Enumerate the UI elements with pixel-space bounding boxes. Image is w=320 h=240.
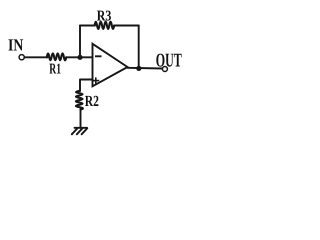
wire feedback top left segment	[80, 25, 95, 27]
wire feedback top right segment	[114, 25, 139, 27]
wire IN terminal to R1	[25, 56, 48, 58]
svg-text:R2: R2	[85, 93, 99, 110]
wire non-inverting input	[80, 80, 93, 91]
svg-text:OUT: OUT	[156, 51, 182, 72]
node B junction dot (output)	[136, 66, 141, 71]
wire R1 to op-amp inverting input	[66, 56, 92, 58]
resistor R2	[76, 91, 83, 110]
ground	[72, 128, 88, 135]
IN terminal	[19, 55, 24, 60]
wire feedback right vertical	[138, 26, 140, 69]
svg-text:R3: R3	[97, 8, 112, 24]
OUT terminal	[162, 67, 167, 72]
wire op-amp output to OUT terminal	[128, 67, 163, 70]
wire R2 to ground	[80, 110, 82, 128]
svg-text:R1: R1	[49, 62, 61, 78]
wire feedback left vertical	[79, 26, 81, 58]
resistor R1	[47, 53, 66, 60]
op-amp U1	[93, 44, 128, 87]
op-amp plus input sign	[93, 77, 99, 83]
svg-text:IN: IN	[8, 36, 24, 55]
resistor R3	[95, 22, 115, 29]
node A junction dot (inverting input)	[77, 55, 82, 60]
op-amp minus input sign	[95, 55, 102, 57]
